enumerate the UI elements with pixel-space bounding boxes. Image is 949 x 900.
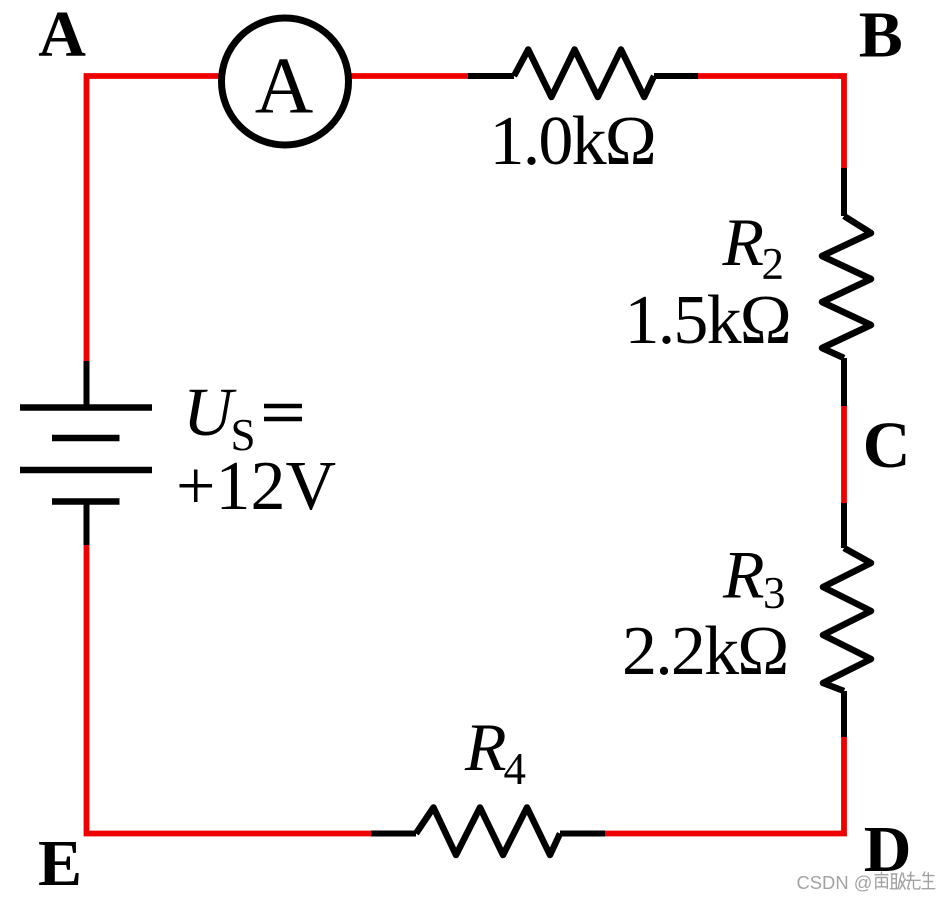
battery US plate long top <box>20 404 152 411</box>
watermark hanzi 南 <box>875 872 889 890</box>
svg-text:C: C <box>863 409 911 482</box>
resistor R4 zigzag <box>416 808 560 856</box>
battery US plate short upper <box>52 435 120 442</box>
wire black: R4 left lead <box>371 831 416 837</box>
wire black: R2 bottom lead <box>841 358 847 406</box>
resistor R3 zigzag <box>823 548 871 691</box>
svg-text:R: R <box>464 709 507 785</box>
ammeter A1 circle <box>222 18 349 145</box>
svg-text:A: A <box>38 0 86 71</box>
wire red: R3 to node D corner to R4 <box>605 737 844 834</box>
wire black: R1 right lead <box>654 73 698 79</box>
svg-text:E: E <box>38 827 82 900</box>
svg-text:2.2kΩ: 2.2kΩ <box>622 613 788 690</box>
svg-text:+12V: +12V <box>176 448 336 525</box>
svg-text:4: 4 <box>504 744 527 794</box>
wire black: R3 bottom lead <box>841 691 847 737</box>
svg-text:CSDN @: CSDN @ <box>797 872 873 893</box>
resistor R2 zigzag <box>822 216 871 358</box>
svg-text:U: U <box>183 374 237 450</box>
watermark hanzi 先 <box>906 872 921 889</box>
svg-text:1.0kΩ: 1.0kΩ <box>490 103 656 180</box>
svg-text:R: R <box>722 537 765 613</box>
resistor R1 zigzag <box>514 50 654 98</box>
wire black: R3 top lead <box>841 503 847 548</box>
watermark hanzi 生 <box>922 872 936 889</box>
svg-text:3: 3 <box>763 568 786 618</box>
watermark hanzi 耿 <box>890 873 906 890</box>
wire black: R1 left lead <box>468 73 514 79</box>
wire red: node C segment <box>841 406 847 503</box>
wire red: R4 to node E corner up to battery <box>87 545 372 834</box>
wire black: R4 right lead <box>560 831 605 837</box>
wire red: battery top to node A corner to ammeter <box>87 76 220 361</box>
battery US equals sign <box>264 406 302 419</box>
svg-text:A: A <box>255 40 314 130</box>
svg-text:R: R <box>722 204 765 280</box>
wire black: R2 top lead <box>841 168 847 216</box>
svg-text:1.5kΩ: 1.5kΩ <box>625 282 791 359</box>
battery US plate long lower <box>20 467 152 474</box>
wire red: R1 to node B corner down <box>698 76 844 168</box>
wire red: ammeter to R1 lead <box>351 73 468 79</box>
svg-text:B: B <box>859 0 903 72</box>
wire black: battery top lead <box>84 361 90 405</box>
wire black: battery bottom lead <box>84 501 90 545</box>
battery US plate short bottom <box>52 498 120 505</box>
